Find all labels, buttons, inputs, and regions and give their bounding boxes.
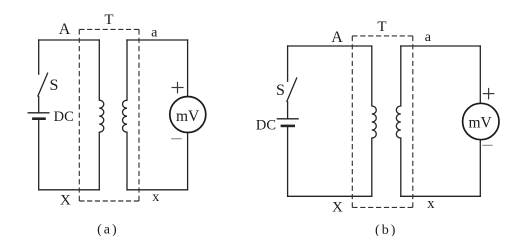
- battery DC (b) short thick plate: [282, 125, 294, 128]
- wire: (b) secondary bottom wire x-side: [401, 195, 481, 197]
- switch S (a) blade: [38, 73, 48, 96]
- svg-text:x: x: [152, 190, 159, 205]
- wire: (a) battery to bottom: [38, 119, 40, 190]
- wire: (b) left vertical upper (to switch): [287, 46, 289, 81]
- transformer T (a) dashed boundary box: [79, 29, 139, 201]
- wire: (b) bottom wire X-side: [288, 195, 372, 197]
- transformer T (b) primary winding: [372, 46, 377, 196]
- wire: (a) switch to battery: [38, 97, 40, 113]
- minus sign (b): [482, 144, 492, 146]
- transformer T (a) primary winding: [99, 40, 104, 190]
- svg-text:x: x: [427, 196, 435, 212]
- svg-text:a: a: [151, 26, 158, 41]
- wire: (b) battery to bottom: [287, 126, 289, 196]
- svg-text:A: A: [59, 21, 71, 38]
- wire: (a) secondary bottom wire x-side: [127, 189, 188, 191]
- svg-text:X: X: [60, 193, 71, 209]
- svg-text:(b): (b): [375, 223, 397, 236]
- svg-text:DC: DC: [256, 117, 276, 133]
- wire: (a) right vertical to meter: [187, 40, 189, 97]
- svg-text:mV: mV: [176, 108, 200, 125]
- wire: (b) top wire A-side: [288, 45, 372, 47]
- millivoltmeter (b) circle: [463, 103, 499, 139]
- switch S (b) blade: [287, 78, 297, 101]
- svg-text:(a): (a): [97, 223, 119, 237]
- wire: (b) switch to battery: [287, 102, 289, 119]
- svg-text:a: a: [425, 30, 432, 45]
- transformer T (b) dashed boundary box: [352, 36, 413, 208]
- transformer T (b) secondary winding: [396, 46, 401, 196]
- wire: (a) secondary top wire a-side: [127, 39, 188, 41]
- wire: (b) meter to bottom: [479, 140, 481, 197]
- battery DC (a) short thick plate: [33, 117, 44, 120]
- wire: (b) right vertical to meter: [479, 46, 481, 103]
- plus sign (b): [483, 88, 495, 100]
- svg-text:S: S: [50, 77, 59, 94]
- wire: (a) meter to bottom: [187, 133, 189, 190]
- battery DC (b) long plate: [277, 118, 298, 120]
- minus sign (a): [171, 138, 182, 140]
- svg-text:A: A: [331, 29, 343, 46]
- transformer T (a) secondary winding: [123, 40, 127, 190]
- wire: (b) secondary top wire a-side: [401, 45, 481, 47]
- svg-text:T: T: [377, 19, 386, 35]
- svg-text:X: X: [332, 199, 343, 215]
- millivoltmeter (a) circle: [170, 97, 206, 133]
- plus sign (a): [172, 82, 184, 94]
- svg-text:T: T: [104, 12, 113, 28]
- svg-text:mV: mV: [468, 114, 492, 131]
- wire: (a) bottom wire X-side: [39, 189, 100, 191]
- wire: (a) left vertical upper (to switch): [38, 40, 40, 74]
- svg-text:S: S: [276, 82, 285, 99]
- wire: (a) top wire A-side: [39, 39, 100, 41]
- battery DC (a) long plate: [28, 112, 49, 114]
- svg-text:DC: DC: [54, 109, 74, 125]
